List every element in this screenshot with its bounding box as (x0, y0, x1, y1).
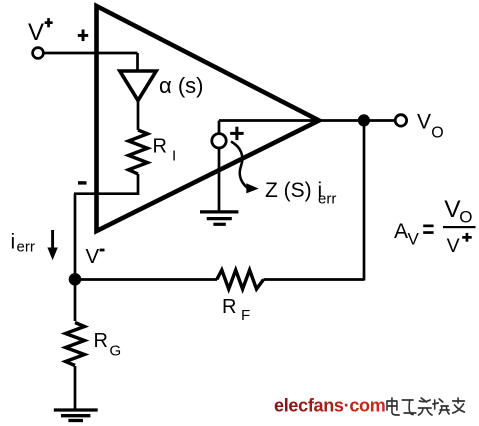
label + (non-inverting input) (78, 30, 88, 42)
ground (current source) (200, 212, 238, 224)
wire V+ input to buffer (43, 53, 137, 72)
wire op-amp output (322, 119, 395, 122)
label ierr (11, 231, 35, 256)
label - (inverting input) (78, 181, 87, 184)
svg-text:i: i (11, 231, 16, 254)
svg-text:elecfans·com: elecfans·com (274, 396, 385, 416)
svg-text:V: V (408, 230, 420, 249)
resistor RI (129, 130, 148, 174)
watermark chinese characters (387, 398, 464, 415)
svg-text:Z (S) i: Z (S) i (265, 179, 322, 202)
wire RF to output node (264, 121, 365, 281)
svg-text:V: V (417, 111, 431, 134)
svg-text:V: V (28, 19, 44, 46)
label RI (153, 136, 177, 165)
svg-text:O: O (459, 208, 472, 227)
buffer amplifier (alpha) (120, 71, 156, 101)
node VO output terminal (395, 115, 406, 126)
svg-text:err: err (17, 239, 35, 256)
op-amp U1 triangle body (97, 6, 320, 231)
ground (RG) (54, 410, 98, 421)
svg-text:I: I (172, 148, 176, 165)
svg-text:F: F (241, 307, 250, 324)
wire feedback bottom (node to RF) (75, 278, 217, 281)
wire RI bottom to inverting input (74, 174, 138, 194)
svg-text:R: R (222, 296, 236, 318)
wire buffer to RI (137, 99, 140, 130)
label + (current source polarity) (230, 127, 243, 140)
label RG (94, 330, 122, 360)
arrow pointer to Z(S)ierr (231, 142, 259, 194)
svg-text:V: V (86, 245, 100, 268)
resistor RG (66, 323, 85, 366)
node V- junction dot (69, 273, 82, 286)
wire current source to ground (218, 148, 221, 211)
node V+ input terminal (33, 48, 44, 59)
svg-text:O: O (431, 125, 443, 142)
label V- (86, 245, 105, 268)
svg-text:R: R (153, 136, 167, 158)
wire current source to output apex (219, 121, 322, 135)
current source Z(S)ierr (212, 134, 226, 148)
formula AV = VO / V+ (394, 196, 476, 257)
wire inverting node down (74, 194, 77, 280)
svg-text:α (s): α (s) (159, 73, 203, 98)
arrow ierr current direction (47, 230, 57, 260)
wire node to RG (74, 280, 77, 321)
label Z(S)ierr (265, 179, 336, 208)
resistor RF (217, 270, 264, 289)
svg-text:G: G (110, 343, 122, 360)
node output junction dot (358, 114, 370, 126)
svg-text:A: A (394, 220, 408, 243)
label VO (417, 111, 444, 142)
label RF (222, 296, 250, 324)
watermark elecfans.com logo (274, 396, 385, 416)
svg-text:err: err (318, 191, 336, 208)
wire RG to ground (74, 366, 77, 410)
label V+ (28, 18, 53, 46)
svg-text:V: V (447, 235, 460, 257)
svg-text:R: R (94, 330, 108, 352)
